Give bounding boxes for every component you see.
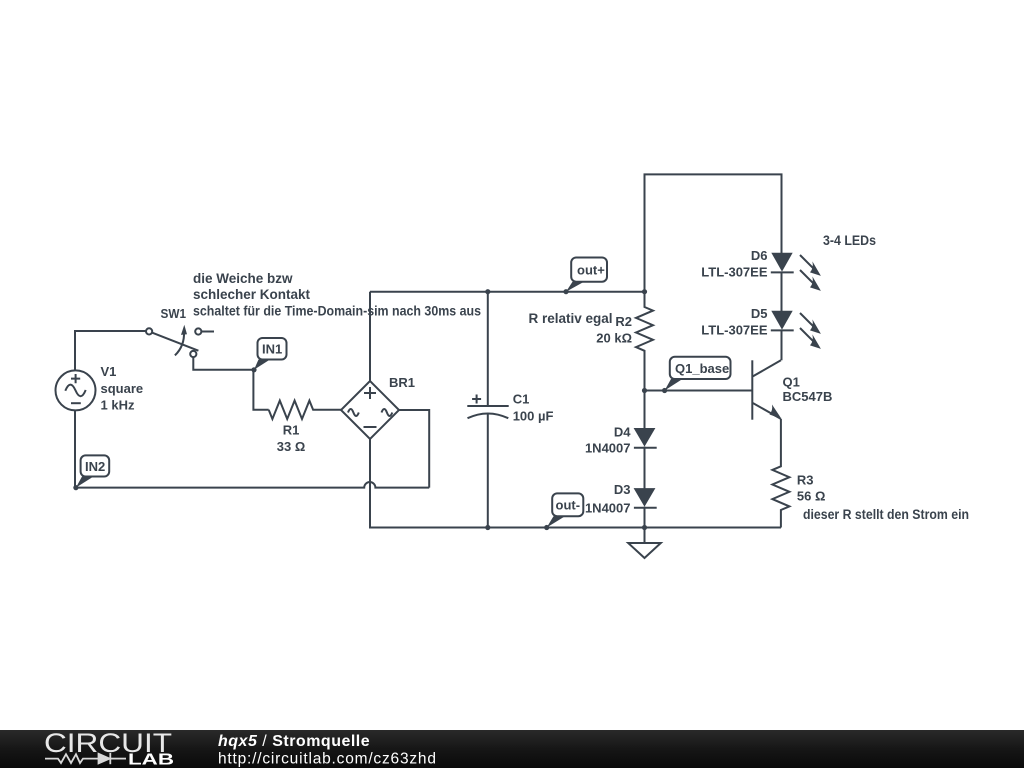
- node label out+: [566, 258, 607, 292]
- svg-text:R relativ egal: R relativ egal: [529, 311, 613, 326]
- logo schematic doodle: [45, 753, 126, 764]
- svg-text:LTL-307EE: LTL-307EE: [701, 323, 768, 338]
- svg-text:20 kΩ: 20 kΩ: [596, 331, 632, 346]
- junction dot R2 top: [642, 289, 647, 294]
- svg-text:D6: D6: [751, 248, 768, 263]
- svg-text:33 Ω: 33 Ω: [277, 439, 306, 454]
- wire V1 top to SW1: [75, 331, 146, 371]
- node label out-: [547, 493, 584, 527]
- rectifier BR1: [341, 381, 399, 439]
- svg-text:IN1: IN1: [262, 342, 282, 357]
- junction dot Q1_base anchor: [662, 388, 667, 393]
- svg-text:D4: D4: [614, 425, 631, 440]
- LED D5: [771, 311, 821, 361]
- svg-text:hqx5 / Stromquelle: hqx5 / Stromquelle: [218, 733, 370, 750]
- resistor R3: [772, 419, 789, 528]
- wire base node to Q1: [645, 390, 753, 392]
- diode D4: [634, 391, 657, 489]
- ground: [628, 528, 661, 559]
- svg-text:56 Ω: 56 Ω: [797, 489, 826, 504]
- diode D3: [634, 488, 657, 527]
- svg-text:Q1: Q1: [783, 375, 800, 390]
- voltage source V1: [56, 370, 96, 410]
- transistor Q1: [752, 360, 781, 419]
- svg-text:schlecher Kontakt: schlecher Kontakt: [193, 287, 311, 302]
- junction dot out+ anchor: [563, 289, 568, 294]
- svg-text:1 kHz: 1 kHz: [101, 398, 135, 413]
- svg-text:3-4 LEDs: 3-4 LEDs: [823, 233, 876, 248]
- svg-text:BR1: BR1: [389, 375, 415, 390]
- svg-text:LAB: LAB: [128, 752, 174, 768]
- wire SW1 to node IN1: [193, 357, 268, 410]
- junction dot C1 top: [485, 289, 490, 294]
- node label Q1_base: [665, 357, 731, 391]
- svg-text:R1: R1: [283, 423, 300, 438]
- wire BR1 right to bottom rail: [399, 410, 429, 488]
- wire top rail: [645, 174, 782, 291]
- wire IN2 rail with hop: [76, 482, 429, 488]
- junction dot IN1 anchor: [251, 367, 256, 372]
- svg-text:1N4007: 1N4007: [585, 501, 631, 516]
- svg-text:out-: out-: [556, 498, 581, 513]
- svg-text:C1: C1: [513, 392, 530, 407]
- svg-text:R2: R2: [615, 314, 632, 329]
- svg-text:out+: out+: [577, 263, 605, 278]
- switch SW1: [146, 325, 214, 357]
- svg-text:SW1: SW1: [161, 306, 187, 321]
- svg-text:V1: V1: [101, 364, 117, 379]
- svg-text:IN2: IN2: [85, 459, 105, 474]
- svg-text:100 µF: 100 µF: [513, 409, 554, 424]
- junction dot C1 bottom: [485, 525, 490, 530]
- svg-text:LTL-307EE: LTL-307EE: [701, 265, 768, 280]
- svg-text:die Weiche bzw: die Weiche bzw: [193, 271, 293, 286]
- svg-text:1N4007: 1N4007: [585, 441, 631, 456]
- wire BR1 top to out+ rail: [369, 292, 371, 381]
- wire V1 bottom to IN2 rail: [74, 410, 76, 488]
- svg-text:D5: D5: [751, 306, 768, 321]
- svg-text:R3: R3: [797, 473, 814, 488]
- svg-text:BC547B: BC547B: [783, 389, 833, 404]
- svg-text:schaltet für die Time-Domain-s: schaltet für die Time-Domain-sim nach 30…: [193, 304, 481, 319]
- svg-text:Q1_base: Q1_base: [675, 361, 729, 376]
- svg-text:dieser R stellt den Strom ein: dieser R stellt den Strom ein: [803, 507, 969, 522]
- wire out+ rail: [370, 291, 645, 293]
- junction dot out- anchor: [544, 525, 549, 530]
- junction dot ground node: [642, 525, 647, 530]
- node label IN2: [76, 455, 109, 487]
- svg-text:http://circuitlab.com/cz63zhd: http://circuitlab.com/cz63zhd: [218, 751, 437, 768]
- resistor R1: [269, 401, 341, 419]
- wire BR1 bottom to out- rail: [370, 439, 781, 528]
- node label IN1: [254, 338, 287, 370]
- junction dot base node: [642, 388, 647, 393]
- svg-text:square: square: [101, 381, 144, 396]
- capacitor C1: [467, 292, 508, 528]
- junction dot IN2 anchor: [73, 485, 78, 490]
- svg-text:D3: D3: [614, 482, 631, 497]
- footer bar: [0, 730, 1024, 768]
- LED D6: [771, 253, 821, 311]
- resistor R2: [636, 292, 653, 391]
